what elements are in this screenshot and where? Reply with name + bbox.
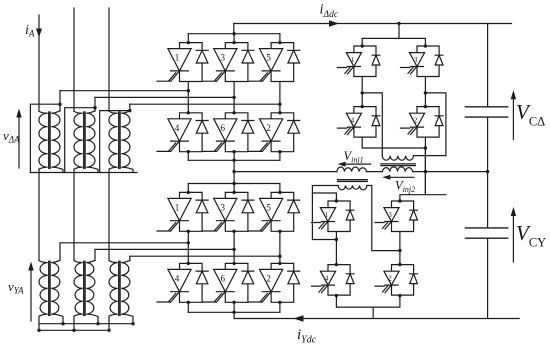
thyristor-diode module 2 (aux bridge) — [375, 265, 418, 296]
thyristor-diode module 5 — [249, 192, 300, 231]
svg-text:vYA: vYA — [8, 279, 24, 296]
svg-text:1: 1 — [325, 211, 329, 219]
svg-text:5: 5 — [266, 202, 271, 212]
svg-text:2: 2 — [414, 117, 418, 125]
ipt1 lower winding left lead to lower aux bridge — [312, 186, 338, 240]
delta transformer 3 primary winding — [109, 111, 118, 169]
delta bridge leg1 top stub — [187, 34, 189, 43]
delta jumper 2 — [65, 108, 95, 173]
capacitor C-Y — [465, 228, 507, 238]
svg-text:6: 6 — [221, 273, 226, 283]
midpoint-wire drop to feed line — [424, 148, 426, 195]
thyristor-diode module 1 — [157, 43, 208, 82]
upper aux tap2 to interphase winding — [425, 93, 446, 156]
svg-text:3: 3 — [388, 211, 392, 219]
delta bank bottom bus — [30, 172, 137, 174]
interphase transformer 1 core — [338, 180, 368, 182]
upper aux bridge bottom rail — [362, 137, 425, 148]
thyristor-diode module 6 — [203, 113, 254, 152]
wye secondary 1 top lead + wire D to wye bridge leg1 — [60, 243, 188, 260]
svg-text:4: 4 — [351, 117, 355, 125]
svg-text:iYdc: iYdc — [297, 327, 317, 346]
capacitor chain bottom lead — [487, 238, 489, 318]
delta transformer 3 secondary winding — [121, 111, 133, 173]
arrow V_Cdelta (up) — [512, 94, 514, 139]
phase line C (input) — [108, 8, 110, 111]
delta bridge bottom rail — [188, 159, 280, 161]
upper aux bottom drop to midpoint wire — [424, 148, 426, 195]
delta bridge leg2 bottom stub — [279, 152, 281, 161]
wye bridge leg2 bottom stub — [279, 302, 281, 312]
wye transformer 2 secondary winding — [86, 260, 98, 323]
arrow v_dA (up) — [18, 112, 20, 168]
delta transformer 1 primary winding — [39, 111, 48, 169]
interphase transformer 1 upper winding — [337, 167, 366, 172]
top DC bus — [234, 23, 512, 25]
upper aux leg2 mid vertical — [424, 77, 426, 107]
wire B to delta bridge leg3 — [95, 96, 234, 98]
wye transformer 1 secondary winding — [51, 260, 63, 323]
delta jumper 3 — [100, 111, 130, 173]
delta bridge top rail — [188, 33, 280, 35]
arrow V_CY (up) — [512, 211, 514, 262]
svg-text:4: 4 — [175, 123, 180, 133]
svg-text:1: 1 — [175, 53, 180, 63]
thyristor-diode module 3 — [203, 43, 254, 82]
thyristor-diode module 2 (aux bridge) — [401, 107, 444, 138]
wye bridge leg6 bottom stub — [233, 302, 235, 312]
thyristor-diode module 5 — [249, 43, 300, 82]
wye transformer 3 primary winding — [109, 261, 118, 331]
svg-text:iΔdc: iΔdc — [320, 2, 339, 21]
wye bridge leg mid vertical 5-2 — [279, 231, 281, 263]
upper aux leg1 mid vertical — [361, 77, 363, 107]
thyristor-diode module 4 (aux bridge) — [337, 107, 380, 138]
delta secondary 2 top lead — [94, 97, 96, 111]
capacitor chain mid lead — [487, 117, 489, 228]
delta transformer 2 secondary winding — [86, 111, 98, 173]
thyristor-diode module 2 — [249, 113, 300, 152]
wye bridge leg mid vertical 3-6 — [233, 231, 235, 263]
midpoint wire (delta-bridge negative to capacitor midpoint) — [234, 171, 488, 173]
delta transformer 3 core — [119, 112, 120, 168]
thyristor-diode module 1 (aux bridge) — [312, 201, 355, 232]
svg-text:vΔA: vΔA — [3, 128, 20, 145]
delta transformer 1 primary bottom lead — [38, 169, 40, 260]
thyristor-diode module 1 (aux bridge) — [337, 46, 380, 77]
delta bridge leg mid vertical 5-2 — [279, 82, 281, 113]
interphase transformer 2 lower winding (on midpoint wire) — [382, 167, 412, 172]
delta secondary 3 top lead — [129, 104, 131, 111]
svg-text:4: 4 — [325, 275, 329, 283]
thyristor-diode module 4 (aux bridge) — [312, 265, 355, 296]
upper aux bridge feed from top bus — [398, 24, 400, 39]
top bus drop to delta bridge — [233, 24, 235, 34]
delta secondary 1 top lead — [59, 91, 61, 111]
delta transformer 2 primary bottom lead — [73, 169, 75, 260]
svg-text:4: 4 — [175, 273, 180, 283]
thyristor-diode module 1 — [157, 192, 208, 231]
capacitor chain top lead — [487, 24, 489, 107]
arrow V_inj1 (left) — [342, 163, 371, 165]
arrow V_inj2 (left) — [387, 176, 414, 178]
wire A to delta bridge leg1 — [60, 90, 188, 92]
interphase transformer 2 upper winding — [382, 156, 413, 161]
phase line A (input) — [38, 15, 40, 111]
delta bridge leg mid vertical 3-6 — [233, 82, 235, 113]
arrow i_A (down) — [36, 29, 42, 38]
thyristor-diode module 4 — [157, 263, 208, 302]
svg-text:Vinj2: Vinj2 — [395, 179, 415, 195]
wye transformer 2 primary winding — [74, 261, 83, 331]
delta bridge negative drop — [233, 160, 235, 183]
wye transformer 3 secondary winding — [121, 260, 133, 323]
delta jumper 1 — [30, 104, 60, 172]
delta bridge leg5 top stub — [279, 34, 281, 43]
arrow i_ddc (right) — [329, 20, 339, 27]
lower aux leg2 mid vertical — [399, 232, 401, 265]
lower aux bridge drop to bottom bus — [372, 307, 374, 318]
arrow v_YA (up) — [30, 265, 32, 321]
svg-text:2: 2 — [266, 273, 271, 283]
thyristor-diode module 4 — [157, 113, 208, 152]
wye transformer 2 core — [84, 261, 85, 315]
wye bridge bottom rail — [188, 311, 280, 313]
upper aux bridge top rail — [362, 38, 425, 46]
upper aux tap1 to interphase winding — [362, 93, 382, 156]
interphase transformer 1 lower winding — [338, 186, 367, 190]
thyristor-diode module 2 — [249, 263, 300, 302]
ipt1 lower winding right lead to leg2 midpoint — [367, 186, 400, 251]
bottom DC bus — [234, 318, 519, 320]
wye transformer 3 core — [119, 261, 120, 315]
svg-text:3: 3 — [414, 56, 418, 64]
svg-text:1: 1 — [175, 202, 180, 212]
delta transformer 2 core — [84, 112, 85, 168]
wye transformer 1 core — [49, 261, 50, 315]
wye secondary 2 top lead + wire E to wye bridge leg3 — [95, 249, 234, 260]
lower aux bridge bottom rail — [336, 295, 400, 307]
delta bridge leg mid vertical 1-4 — [187, 82, 189, 113]
svg-text:1: 1 — [351, 56, 355, 64]
wye bridge leg mid vertical 1-4 — [187, 231, 189, 263]
svg-text:VCY: VCY — [516, 221, 546, 250]
svg-text:Vinj1: Vinj1 — [344, 149, 364, 165]
delta bridge leg3 top stub — [233, 34, 235, 43]
svg-text:3: 3 — [221, 53, 226, 63]
svg-text:2: 2 — [388, 275, 392, 283]
wye bridge leg1 top stub — [187, 184, 189, 193]
wye bridge leg4 bottom stub — [187, 302, 189, 312]
wye secondary 3 top lead + wire F to wye bridge leg5 — [130, 256, 280, 260]
delta transformer 3 primary bottom lead — [108, 169, 110, 260]
thyristor-diode module 6 — [203, 263, 254, 302]
wye secondary star bus — [39, 323, 133, 325]
svg-text:5: 5 — [266, 53, 271, 63]
delta bridge leg6 bottom stub — [233, 152, 235, 161]
lower aux bridge leg2 feed — [400, 195, 446, 201]
interphase transformer 2 core — [381, 164, 415, 166]
wye transformer 1 primary winding — [39, 261, 48, 331]
thyristor-diode module 3 (aux bridge) — [401, 46, 444, 77]
capacitor C-delta — [465, 107, 507, 117]
interphase transformer 2 upper winding right lead — [414, 155, 446, 157]
thyristor-diode module 3 (aux bridge) — [375, 201, 418, 232]
wye primary star bus — [39, 329, 109, 331]
wye bridge negative drop — [233, 312, 235, 318]
svg-text:VCΔ: VCΔ — [516, 100, 545, 129]
svg-text:2: 2 — [266, 123, 271, 133]
svg-text:3: 3 — [221, 202, 226, 212]
svg-text:6: 6 — [221, 123, 226, 133]
phase line B (input) — [73, 8, 75, 111]
lower aux bridge leg1 feed — [312, 193, 336, 201]
delta bridge leg4 bottom stub — [187, 152, 189, 161]
wire C to delta bridge leg5 — [130, 103, 280, 105]
thyristor-diode module 3 — [203, 192, 254, 231]
wye bridge leg5 top stub — [279, 184, 281, 193]
delta transformer 1 core — [49, 112, 50, 168]
delta transformer 1 secondary winding — [51, 111, 63, 173]
arrow i_Ydc (left) — [294, 315, 304, 322]
wye bridge leg3 top stub — [233, 184, 235, 193]
svg-text:iA: iA — [25, 23, 35, 39]
delta transformer 2 primary winding — [74, 111, 83, 169]
wye bridge top rail — [188, 183, 280, 185]
lower aux leg1 mid vertical — [335, 232, 337, 265]
